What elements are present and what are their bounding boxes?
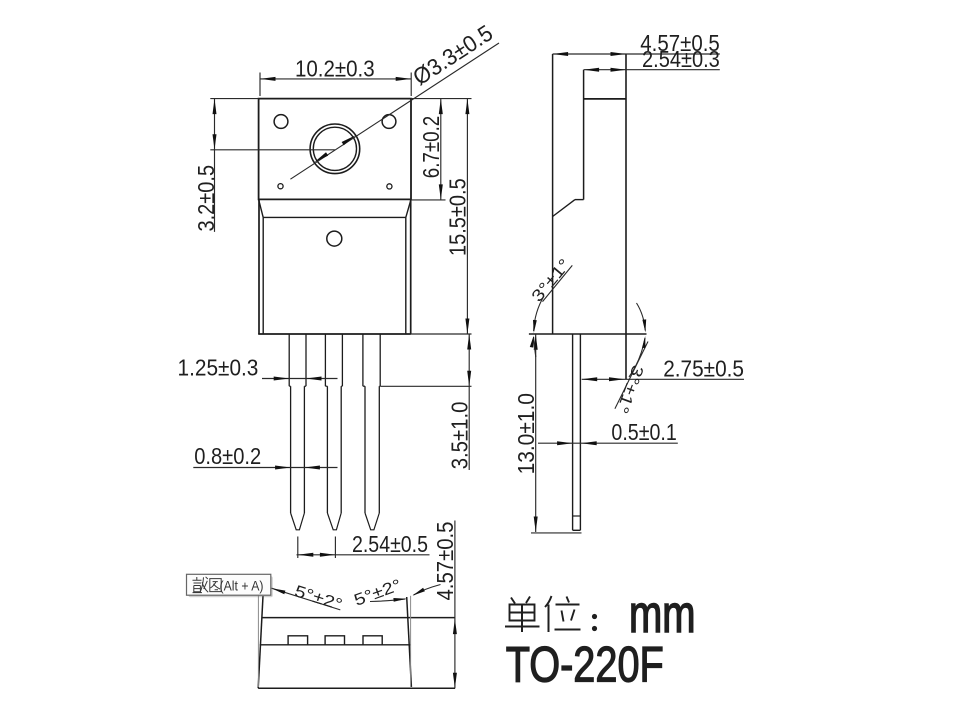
pin 2 (front view) <box>325 334 342 530</box>
svg-text:1.25±0.3: 1.25±0.3 <box>178 355 259 381</box>
svg-text:2.54±0.5: 2.54±0.5 <box>352 531 428 557</box>
dimension 4.57±0.5 (overall depth, side view) <box>553 30 720 56</box>
angle 5°±2° right (draft angle, bottom view) <box>352 576 441 610</box>
dimension 15.5±0.5 (package height) <box>411 99 472 334</box>
svg-text:15.5±0.5: 15.5±0.5 <box>445 178 471 256</box>
svg-text:3.2±0.5: 3.2±0.5 <box>193 165 219 232</box>
tab mounting hole Ø3.3 (double circle) <box>310 124 360 174</box>
tab pin-hole lower-left <box>278 184 283 189</box>
dimension 3.2±0.5 (tab top to hole center) <box>193 99 335 232</box>
body hole (front view) <box>327 231 342 246</box>
pin section 2 (bottom view) <box>325 636 344 645</box>
dimension 3.5±1.0 (body bottom to lead shoulder) <box>380 334 472 470</box>
svg-text:mm: mm <box>629 585 696 644</box>
svg-text:5°±2°: 5°±2° <box>352 576 404 610</box>
caption: units label 单位：mm <box>505 585 696 644</box>
svg-text:13.0±1.0: 13.0±1.0 <box>513 393 539 474</box>
svg-text:Ø3.3±0.5: Ø3.3±0.5 <box>408 19 497 90</box>
molded body outline (front view) <box>258 199 411 334</box>
screenshot tooltip 截图(Alt + A) <box>187 574 273 597</box>
front view: TO-220F package outline, heatsink tab <box>259 99 411 200</box>
dimension 1.25±0.3 (lead shoulder width) <box>178 355 338 381</box>
vertical reference line right (bottom view) <box>410 596 412 687</box>
tab hole upper-left <box>274 115 288 129</box>
caption: package name TO-220F <box>506 636 664 692</box>
svg-text:0.5±0.1: 0.5±0.1 <box>611 419 676 445</box>
angle 3°±1° (front face draft, side view) <box>528 256 574 357</box>
svg-text:3°±1°: 3°±1° <box>613 363 647 416</box>
svg-text:TO-220F: TO-220F <box>506 636 664 692</box>
tab hole upper-right <box>382 115 396 129</box>
svg-text:(Alt + A): (Alt + A) <box>220 579 264 594</box>
angle 5°±2° left (draft angle, bottom view) <box>272 582 345 614</box>
svg-text:3°±1°: 3°±1° <box>528 256 574 306</box>
dimension 2.54±0.5 (lead pitch) <box>297 531 430 558</box>
pin section 1 (bottom view) <box>288 636 308 645</box>
svg-text:3.5±1.0: 3.5±1.0 <box>446 402 472 470</box>
dimension 6.7±0.2 (tab height) <box>411 99 472 200</box>
leader and label Ø3.3±0.5 (mounting hole diameter) <box>290 19 499 179</box>
pin (side view) <box>573 334 581 530</box>
dimension 0.5±0.1 (pin thickness) <box>538 419 678 445</box>
vertical reference line left (bottom view) <box>257 595 259 687</box>
dimension 10.2±0.3 (tab width) <box>260 55 411 96</box>
pin 3 (front view) <box>363 334 380 530</box>
svg-text:2.75±0.5: 2.75±0.5 <box>663 356 744 382</box>
dimension 2.54±0.3 (tab thickness, side view) <box>584 46 720 72</box>
svg-text:6.7±0.2: 6.7±0.2 <box>418 116 444 178</box>
pin 1 (front view) <box>289 334 306 530</box>
svg-text:5°±2°: 5°±2° <box>292 582 344 614</box>
pin section 3 (bottom view) <box>363 636 382 645</box>
dimension 0.8±0.2 (lead width) <box>193 443 337 470</box>
svg-text:0.8±0.2: 0.8±0.2 <box>194 443 261 469</box>
svg-text:4.57±0.5: 4.57±0.5 <box>432 522 458 601</box>
svg-text:2.54±0.3: 2.54±0.3 <box>642 46 720 72</box>
dimension 2.75±0.5 (pin to back face) <box>582 356 744 382</box>
dimension 4.57±0.5 (bottom view height) <box>432 521 458 689</box>
angle 3°±1° (back face draft / pin angle, side view) <box>613 303 648 416</box>
dimension 13.0±1.0 (pin length) <box>513 334 582 533</box>
bottom view: package base outline <box>258 596 455 688</box>
tab pin-hole lower-right <box>387 184 392 189</box>
svg-text:10.2±0.3: 10.2±0.3 <box>295 55 375 81</box>
side view: package profile <box>529 54 647 379</box>
